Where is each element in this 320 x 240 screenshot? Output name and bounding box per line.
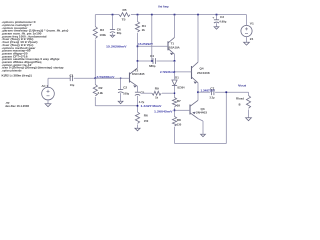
transistor Q3 (189, 105, 191, 115)
svg-text:C4: C4 (150, 54, 155, 58)
node dot R9 junction (174, 93, 175, 94)
svg-text:3.9k: 3.9k (98, 91, 104, 95)
svg-text:1.342746mV: 1.342746mV (141, 104, 162, 108)
resistor R3 (93, 27, 97, 39)
node dot 680p wire tap (137, 60, 139, 62)
node dot output junction (197, 91, 199, 93)
svg-text:Rload: Rload (236, 97, 244, 101)
svg-text:V1: V1 (250, 21, 255, 25)
svg-text:R3: R3 (100, 28, 105, 32)
wire supply rail left segment (95, 14, 119, 16)
svg-text:.option plotmode: .option plotmode (2, 68, 23, 72)
wire C7 to Vout node (215, 91, 248, 93)
wire T2 emitter down (137, 86, 139, 92)
wire 680p node to C4 (138, 60, 153, 62)
svg-text:C2: C2 (123, 85, 128, 89)
svg-text:Vout: Vout (238, 83, 246, 87)
voltage source AC 1 (42, 87, 55, 100)
svg-text:C6: C6 (117, 27, 122, 31)
svg-text:K(R2 Lt 380m {freq}]: K(R2 Lt 380m {freq}] (2, 74, 32, 78)
resistor R2 (93, 85, 97, 96)
wire R2 bottom to emitter node (95, 105, 137, 107)
svg-text:2k: 2k (142, 28, 146, 32)
svg-text:+: + (212, 15, 215, 19)
transistor Q4 (191, 66, 193, 79)
ground below C6 (110, 35, 114, 37)
svg-text:D1: D1 (175, 75, 179, 79)
wire rail to C3 (216, 15, 218, 20)
wire Rload to ground (248, 110, 250, 118)
resistor R6 150 (135, 112, 139, 123)
wire AC source to C1 (48, 77, 70, 79)
wire AC source to ground (47, 99, 49, 104)
svg-text:75: 75 (122, 18, 127, 22)
svg-text:10µ: 10µ (70, 83, 75, 87)
svg-text:Q3: Q3 (201, 107, 206, 111)
svg-text:3.3µ: 3.3µ (210, 96, 215, 100)
ground below C3 (214, 27, 219, 29)
ground below Q3 emitter (201, 134, 206, 136)
svg-text:680p: 680p (149, 64, 156, 68)
wire bottom up to output (225, 92, 227, 143)
wire R4 bottom down to T2 collector (137, 33, 139, 68)
resistor R8 (172, 117, 176, 127)
diode D1 (172, 80, 177, 85)
wire C6 to ground (112, 33, 114, 35)
svg-text:1.26045mV: 1.26045mV (154, 109, 173, 113)
capacitor C4 680p in wire (152, 58, 154, 64)
wire output node to C7 (198, 91, 210, 93)
svg-text:R7: R7 (177, 99, 182, 103)
node dot input junction (94, 77, 96, 79)
svg-text:150: 150 (144, 119, 149, 123)
svg-text:4.99µ: 4.99µ (219, 19, 227, 23)
wire C1 to input node (74, 77, 96, 79)
svg-text:8: 8 (239, 102, 242, 106)
svg-text:BSA19A: BSA19A (169, 45, 180, 49)
wire R6 to ground (137, 125, 139, 129)
svg-text:2.72945mV: 2.72945mV (160, 70, 175, 74)
wire T1 emitter node down to Q4 base tap (174, 61, 176, 79)
wire C5 to emitter node (137, 96, 139, 112)
resistor R4 (135, 22, 139, 33)
wire rail corner down to R3 (94, 15, 96, 27)
resistor R5 in rail (119, 13, 130, 17)
transistor T2 (129, 73, 131, 83)
capacitor C7 (211, 89, 213, 95)
svg-text:R9: R9 (155, 86, 160, 90)
svg-text:T1: T1 (171, 42, 175, 46)
ground below C2 (118, 101, 123, 103)
wire AC source up to input wire (47, 78, 49, 88)
voltage source V1 (241, 25, 252, 36)
svg-text:130: 130 (177, 123, 182, 127)
svg-text:C3: C3 (220, 15, 225, 19)
svg-text:39: 39 (177, 104, 181, 108)
wire rail corner to V1 (246, 15, 248, 26)
svg-text:C1: C1 (70, 74, 75, 78)
wire R3 bottom to input node (94, 40, 96, 79)
node dot at C4 wire (151, 60, 153, 62)
svg-text:R8: R8 (177, 118, 182, 122)
wire R8 down to bottom feedback wire (174, 127, 176, 144)
wire rail to C6 (112, 15, 114, 30)
wire R9 to diode node (162, 92, 175, 94)
svg-text:Q4: Q4 (200, 66, 205, 70)
wire rail down to C4 node (151, 15, 153, 61)
node dot T1 base tap (137, 45, 139, 47)
svg-text:1k: 1k (155, 96, 159, 100)
svg-text:24: 24 (250, 37, 254, 41)
svg-text:C7: C7 (210, 86, 215, 90)
svg-text:R5: R5 (123, 8, 128, 12)
svg-text:3.59268mV: 3.59268mV (97, 75, 115, 79)
svg-text:2SC1008: 2SC1008 (197, 71, 210, 75)
capacitor C5 polarized 4.7u (135, 91, 140, 93)
capacitor C3 polarized 4.99u (214, 19, 219, 21)
resistor R7 (172, 98, 176, 107)
resistor Rload (246, 96, 250, 109)
node dot Q3 base tap (174, 109, 176, 111)
wire C5 node to R9 (141, 92, 153, 94)
resistor R9 1k horizontal (152, 91, 161, 95)
ground below AC source (45, 104, 51, 107)
transistor T1 (167, 41, 169, 50)
svg-text:C5: C5 (140, 90, 145, 94)
svg-text:BZX84: BZX84 (178, 85, 185, 89)
capacitor C6 polarized (110, 29, 115, 31)
wire supply rail right segment (131, 14, 247, 16)
svg-text:R2: R2 (99, 86, 104, 90)
node dot T1 emitter (174, 60, 176, 62)
svg-text:R4: R4 (142, 24, 147, 28)
bottom feedback wire (175, 143, 227, 145)
svg-text:68p: 68p (117, 31, 122, 35)
svg-text:2N4403: 2N4403 (196, 111, 208, 115)
svg-text:KSC1845: KSC1845 (132, 72, 145, 76)
svg-text:R6: R6 (144, 114, 149, 118)
svg-text:100µ: 100µ (123, 92, 130, 96)
svg-text:Uni Amp: Uni Amp (158, 5, 169, 9)
wire C3 to ground (216, 23, 218, 27)
capacitor C1 (69, 75, 71, 81)
svg-text:AC 1: AC 1 (42, 84, 49, 88)
wire C2 to ground (120, 93, 122, 101)
wire input node to C2 (120, 78, 122, 89)
wire C4 to T1 emitter node (157, 60, 175, 62)
wire R2 bottom corner (94, 78, 96, 84)
svg-text:15.25292V: 15.25292V (138, 42, 153, 46)
node dot Q4 base tap (174, 71, 175, 72)
svg-text:T2: T2 (135, 69, 139, 73)
wire R7 to R8 with Q3 base tap (174, 108, 176, 117)
svg-text:15.26299mV: 15.26299mV (106, 45, 127, 49)
svg-text:Jan-Dec 16.1.2006: Jan-Dec 16.1.2006 (5, 104, 30, 108)
wire Vout corner down to Rload (248, 92, 250, 95)
node dot emitter node (137, 105, 139, 107)
ground below Rload (246, 118, 252, 121)
capacitor C2 polarized (118, 89, 123, 91)
wire rail to R4 (137, 15, 139, 22)
svg-text:100k: 100k (100, 33, 107, 37)
wire D1 to R7 (174, 86, 176, 98)
node dots on rail (112, 14, 114, 16)
wire V1 to ground (246, 37, 248, 43)
node dot feedback tap (225, 91, 227, 93)
ground below V1 (244, 42, 250, 45)
ground below R6 (135, 128, 140, 131)
